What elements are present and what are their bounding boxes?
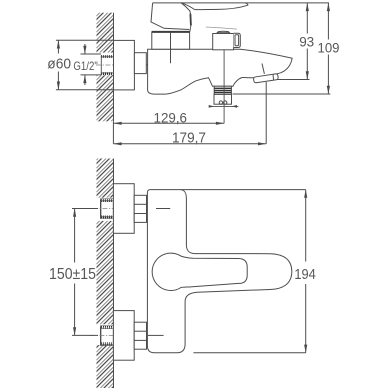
- svg-text:129,6: 129,6: [154, 110, 188, 126]
- svg-text:179,7: 179,7: [172, 130, 206, 147]
- svg-text:109: 109: [318, 40, 340, 56]
- svg-text:ø60: ø60: [47, 56, 71, 73]
- svg-text:150±15: 150±15: [49, 266, 96, 283]
- svg-text:194: 194: [294, 266, 315, 283]
- svg-text:G1/2": G1/2": [73, 59, 97, 73]
- svg-text:93: 93: [299, 34, 314, 50]
